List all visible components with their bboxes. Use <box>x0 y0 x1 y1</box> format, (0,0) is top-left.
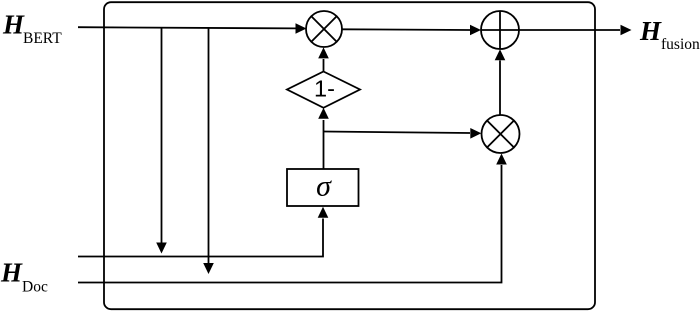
output label H_fusion <box>639 16 700 53</box>
svg-text:fusion: fusion <box>661 36 700 53</box>
input label H_Doc <box>0 258 48 296</box>
sigma box <box>287 169 359 206</box>
multiplier M1 (circle with X) <box>306 11 342 47</box>
wire H_Doc line 1 up to sigma box <box>78 207 328 257</box>
svg-text:1-: 1- <box>314 76 335 102</box>
wire H_Doc line 2 to multiplier M2 bottom <box>78 154 507 283</box>
wire multiplier M2 top to adder S1 bottom <box>495 49 506 115</box>
svg-text:σ: σ <box>316 170 332 203</box>
svg-text:Doc: Doc <box>22 279 48 296</box>
wire branch A down from H_BERT line <box>156 27 167 253</box>
wire diamond top to multiplier M1 bottom <box>318 47 329 71</box>
input label H_BERT <box>2 10 62 48</box>
adder S1 (circle with plus) <box>481 11 519 49</box>
svg-text:H: H <box>2 10 25 40</box>
svg-text:BERT: BERT <box>23 30 62 47</box>
wire branch B down from H_BERT line <box>203 27 214 274</box>
svg-text:H: H <box>0 258 23 288</box>
wire branch from sigma line to multiplier M2 <box>324 128 482 139</box>
diamond 1-minus gate <box>287 72 360 108</box>
enclosing gate box <box>104 2 595 309</box>
multiplier M2 (circle with X) <box>482 115 520 153</box>
wire sigma box top to diamond bottom <box>318 108 329 169</box>
wire H_BERT input to multiplier M1 <box>78 23 307 34</box>
svg-text:H: H <box>639 16 662 46</box>
wire adder S1 to output H_fusion <box>519 25 632 36</box>
wire M1 to adder S1 <box>342 25 481 36</box>
